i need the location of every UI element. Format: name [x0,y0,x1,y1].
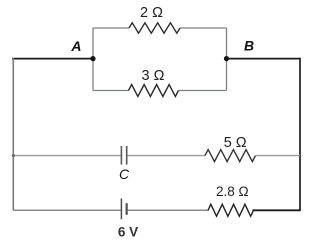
svg-text:A: A [70,38,81,54]
svg-text:6 V: 6 V [118,225,138,240]
svg-text:B: B [244,38,254,54]
svg-text:2 Ω: 2 Ω [140,5,163,21]
svg-text:2.8 Ω: 2.8 Ω [216,184,249,199]
svg-text:C: C [119,166,130,182]
svg-text:3 Ω: 3 Ω [142,68,165,84]
svg-text:5 Ω: 5 Ω [224,135,247,151]
